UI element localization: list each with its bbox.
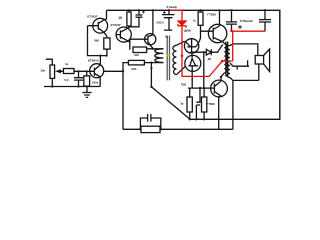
- svg-text:1к: 1к: [65, 62, 69, 66]
- svg-text:ГТ806: ГТ806: [207, 102, 215, 106]
- svg-text:КТ961А: КТ961А: [88, 58, 100, 62]
- svg-text:Д7: Д7: [208, 57, 212, 61]
- svg-text:1К: 1К: [118, 16, 122, 20]
- svg-text:3к: 3к: [180, 102, 184, 106]
- svg-text:5,0: 5,0: [64, 78, 69, 82]
- svg-text:390: 390: [94, 38, 99, 42]
- svg-text:КТ315Г: КТ315Г: [111, 23, 122, 27]
- svg-text:КТ361Г: КТ361Г: [87, 15, 98, 19]
- svg-text:100к: 100к: [92, 80, 99, 84]
- svg-text:600: 600: [131, 67, 136, 71]
- svg-text:500,0: 500,0: [156, 20, 164, 24]
- svg-text:ГТ906: ГТ906: [207, 12, 216, 16]
- svg-text:0,5мкф: 0,5мкф: [167, 5, 178, 9]
- svg-text:910: 910: [134, 53, 139, 57]
- svg-text:ТВК: ТВК: [181, 83, 187, 87]
- svg-text:Д809: Д809: [184, 29, 191, 33]
- svg-text:10к: 10к: [40, 69, 45, 73]
- svg-text:1м: 1м: [165, 35, 168, 39]
- svg-text:4700мкФ: 4700мкФ: [240, 19, 253, 23]
